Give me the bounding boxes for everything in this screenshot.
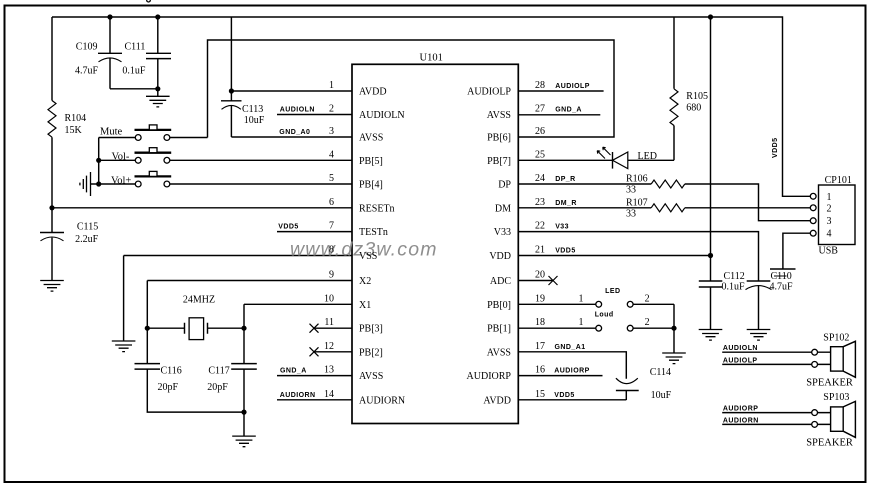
svg-text:21: 21 [535, 245, 545, 256]
svg-text:18: 18 [535, 317, 545, 328]
svg-text:USB: USB [819, 246, 839, 257]
svg-text:AUDIOLP: AUDIOLP [723, 357, 758, 364]
svg-text:VDD5: VDD5 [554, 392, 574, 399]
svg-text:AVSS: AVSS [487, 347, 511, 358]
svg-text:3: 3 [329, 126, 334, 137]
svg-text:AUDIOLN: AUDIOLN [359, 110, 405, 121]
svg-text:PB[4]: PB[4] [359, 180, 383, 191]
svg-text:1: 1 [827, 192, 832, 203]
svg-text:33: 33 [626, 185, 636, 196]
svg-text:20pF: 20pF [158, 382, 179, 393]
svg-text:GND_A1: GND_A1 [555, 344, 586, 351]
svg-text:7: 7 [329, 221, 334, 232]
svg-text:R105: R105 [686, 91, 708, 102]
svg-text:DP_R: DP_R [555, 176, 575, 183]
svg-text:AUDIOLP: AUDIOLP [555, 83, 590, 90]
svg-text:VSS: VSS [359, 251, 377, 262]
svg-text:LED: LED [638, 151, 657, 162]
svg-text:14: 14 [324, 389, 334, 400]
svg-text:Loud: Loud [595, 312, 614, 319]
svg-text:PB[0]: PB[0] [487, 300, 511, 311]
svg-text:25: 25 [535, 149, 545, 160]
svg-text:680: 680 [686, 103, 701, 114]
svg-text:AVSS: AVSS [487, 110, 511, 121]
svg-text:R104: R104 [65, 113, 87, 124]
svg-text:C116: C116 [161, 366, 182, 377]
svg-text:27: 27 [535, 104, 545, 115]
svg-text:C109: C109 [76, 42, 98, 53]
svg-text:C114: C114 [650, 367, 671, 378]
svg-text:LED: LED [605, 288, 620, 295]
svg-text:AUDIORP: AUDIORP [723, 406, 758, 413]
svg-text:AVSS: AVSS [359, 371, 383, 382]
svg-text:4: 4 [329, 149, 334, 160]
svg-text:33: 33 [626, 208, 636, 219]
svg-text:AVDD: AVDD [483, 395, 511, 406]
svg-text:PB[6]: PB[6] [487, 133, 511, 144]
svg-text:11: 11 [324, 317, 334, 328]
svg-text:10uF: 10uF [651, 390, 672, 401]
svg-text:R106: R106 [626, 174, 648, 185]
svg-text:RESETn: RESETn [359, 203, 395, 214]
svg-text:V33: V33 [494, 227, 511, 238]
svg-text:SP103: SP103 [823, 392, 849, 403]
svg-text:5: 5 [329, 173, 334, 184]
svg-text:VDD5: VDD5 [772, 138, 779, 158]
svg-text:3: 3 [827, 216, 832, 227]
svg-text:PB[1]: PB[1] [487, 324, 511, 335]
svg-text:SPEAKER: SPEAKER [806, 377, 853, 388]
svg-text:23: 23 [535, 197, 545, 208]
svg-text:DP: DP [498, 180, 511, 191]
svg-text:PB[3]: PB[3] [359, 324, 383, 335]
svg-text:19: 19 [535, 293, 545, 304]
svg-text:VDD5: VDD5 [278, 224, 298, 231]
svg-text:AUDIORN: AUDIORN [359, 395, 405, 406]
svg-text:13: 13 [324, 365, 334, 376]
svg-text:PB[2]: PB[2] [359, 347, 383, 358]
svg-text:0.1uF: 0.1uF [722, 281, 746, 292]
svg-text:24MHZ: 24MHZ [183, 295, 215, 306]
svg-text:VDD5: VDD5 [555, 248, 575, 255]
svg-text:GND_A: GND_A [280, 368, 307, 375]
svg-text:1: 1 [329, 80, 334, 91]
svg-text:10: 10 [324, 293, 334, 304]
svg-text:AUDIOLP: AUDIOLP [467, 87, 511, 98]
svg-text:20pF: 20pF [207, 382, 228, 393]
svg-text:PB[7]: PB[7] [487, 156, 511, 167]
svg-text:AUDIORN: AUDIORN [723, 417, 759, 424]
svg-text:15K: 15K [65, 125, 83, 136]
svg-text:4: 4 [827, 229, 832, 240]
svg-text:VDD: VDD [489, 251, 511, 262]
svg-text:8: 8 [329, 245, 334, 256]
svg-text:AUDIORN: AUDIORN [280, 392, 316, 399]
svg-text:AUDIOLN: AUDIOLN [723, 345, 758, 352]
svg-text:SPEAKER: SPEAKER [806, 437, 853, 448]
svg-text:2: 2 [329, 104, 334, 115]
svg-text:Mute: Mute [100, 126, 123, 137]
svg-text:10uF: 10uF [244, 115, 265, 126]
svg-text:CP101: CP101 [825, 175, 852, 186]
svg-text:AUDIOLN: AUDIOLN [280, 107, 315, 114]
svg-text:U101: U101 [420, 53, 443, 64]
svg-text:16: 16 [535, 365, 545, 376]
svg-text:ADC: ADC [490, 276, 511, 287]
svg-text:X2: X2 [359, 276, 371, 287]
svg-text:6: 6 [329, 197, 334, 208]
svg-text:15: 15 [535, 389, 545, 400]
svg-text:2: 2 [645, 317, 650, 328]
svg-text:SP102: SP102 [823, 333, 849, 344]
svg-text:DM_R: DM_R [555, 200, 577, 207]
svg-text:0.1uF: 0.1uF [122, 66, 145, 77]
svg-text:V33: V33 [555, 224, 569, 231]
svg-text:AVSS: AVSS [359, 133, 383, 144]
svg-text:GND_A0: GND_A0 [279, 129, 310, 136]
svg-text:AUDIORP: AUDIORP [554, 368, 589, 375]
svg-text:2.2uF: 2.2uF [75, 234, 99, 245]
svg-text:PB[5]: PB[5] [359, 156, 383, 167]
svg-text:DM: DM [495, 203, 511, 214]
svg-text:17: 17 [535, 341, 545, 352]
svg-text:12: 12 [324, 341, 334, 352]
svg-text:C111: C111 [125, 42, 146, 53]
svg-text:R107: R107 [626, 198, 648, 209]
svg-text:24: 24 [535, 173, 545, 184]
svg-text:22: 22 [535, 221, 545, 232]
svg-text:1: 1 [579, 317, 584, 328]
svg-text:4.7uF: 4.7uF [770, 281, 794, 292]
svg-text:X1: X1 [359, 300, 371, 311]
svg-text:2: 2 [645, 293, 650, 304]
svg-text:AVDD: AVDD [359, 87, 387, 98]
svg-text:C113: C113 [242, 104, 263, 115]
svg-text:AUDIORP: AUDIORP [467, 371, 512, 382]
svg-text:Vol-: Vol- [112, 152, 130, 163]
svg-text:GND_A: GND_A [555, 107, 582, 114]
svg-text:28: 28 [535, 80, 545, 91]
svg-text:9: 9 [329, 270, 334, 281]
svg-text:C117: C117 [208, 366, 229, 377]
svg-text:Vol+: Vol+ [111, 175, 131, 186]
svg-text:2: 2 [827, 203, 832, 214]
svg-text:26: 26 [535, 126, 545, 137]
svg-text:C115: C115 [77, 221, 98, 232]
svg-text:1: 1 [579, 293, 584, 304]
svg-text:TESTn: TESTn [359, 227, 388, 238]
svg-text:20: 20 [535, 270, 545, 281]
svg-text:4.7uF: 4.7uF [75, 66, 99, 77]
